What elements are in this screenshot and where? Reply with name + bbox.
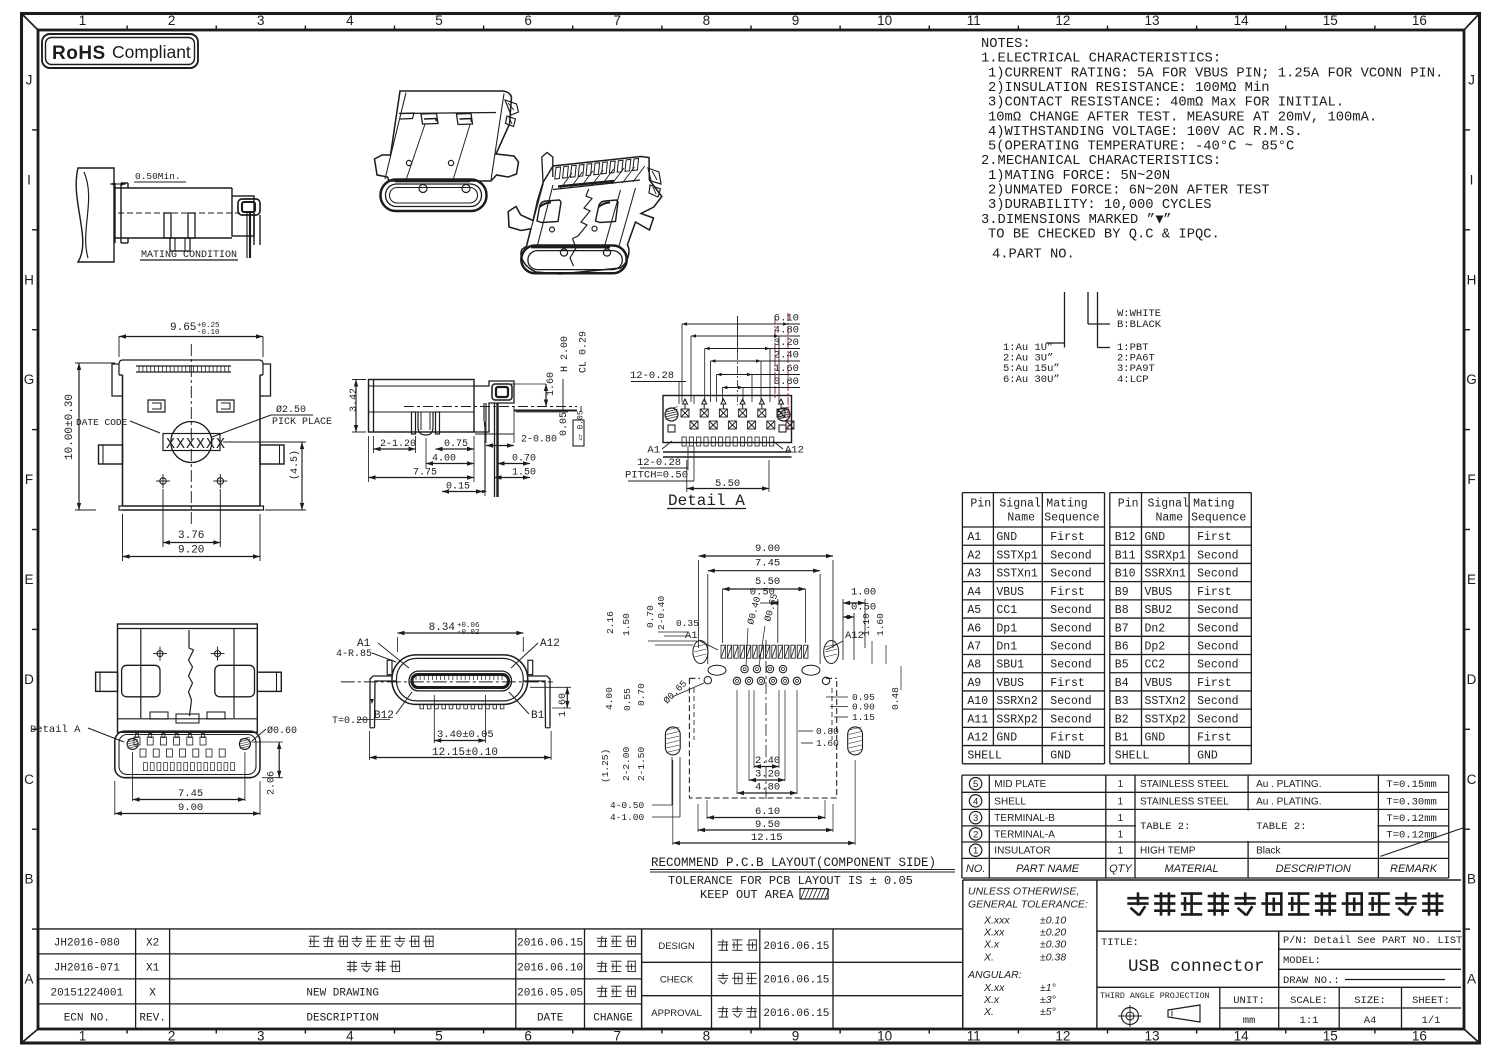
svg-text:X.xx: X.xx [983, 982, 1005, 994]
svg-text:MID PLATE: MID PLATE [994, 779, 1046, 790]
svg-text:A5: A5 [967, 604, 981, 617]
svg-text:X.xx: X.xx [983, 926, 1005, 938]
svg-text:First: First [1197, 531, 1232, 544]
svg-text:UNIT:: UNIT: [1233, 995, 1265, 1007]
svg-text:MATING CONDITION: MATING CONDITION [141, 250, 237, 261]
svg-text:SHEET:: SHEET: [1412, 995, 1450, 1007]
svg-text:10: 10 [877, 13, 892, 28]
bottom view of connector [118, 624, 258, 732]
svg-text:0.70: 0.70 [636, 683, 647, 706]
svg-text:KEEP OUT AREA: KEEP OUT AREA [700, 888, 794, 902]
svg-text:VBUS: VBUS [996, 677, 1024, 690]
svg-text:X.: X. [983, 1006, 994, 1018]
svg-text:1: 1 [1118, 796, 1124, 807]
svg-text:Au . PLATING.: Au . PLATING. [1256, 796, 1321, 807]
svg-text:11: 11 [967, 13, 981, 28]
svg-text:2: 2 [168, 1029, 176, 1044]
svg-text:20151224001: 20151224001 [50, 987, 123, 999]
svg-text:TERMINAL-B: TERMINAL-B [994, 813, 1055, 824]
svg-text:4: 4 [973, 796, 978, 807]
svg-text:B:BLACK: B:BLACK [1117, 319, 1162, 331]
svg-text:SSRXp1: SSRXp1 [1145, 549, 1187, 562]
svg-text:Second: Second [1050, 713, 1091, 726]
svg-text:A6: A6 [967, 622, 981, 635]
svg-text:TABLE 2:: TABLE 2: [1140, 821, 1190, 833]
svg-text:Second: Second [1050, 604, 1091, 617]
svg-text:9.50: 9.50 [755, 819, 780, 831]
svg-text:I: I [1470, 172, 1474, 187]
svg-text:2: 2 [973, 829, 978, 840]
svg-text:SHELL: SHELL [967, 749, 1002, 762]
svg-text:ECN NO.: ECN NO. [64, 1012, 110, 1024]
svg-text:6: 6 [524, 1029, 532, 1044]
svg-text:CHECK: CHECK [660, 975, 694, 986]
svg-text:7: 7 [614, 13, 622, 28]
svg-text:14: 14 [1234, 13, 1250, 28]
svg-text:3: 3 [257, 13, 265, 28]
svg-text:4.00: 4.00 [604, 687, 615, 710]
svg-text:7.75: 7.75 [413, 468, 437, 479]
svg-text:8.34: 8.34 [429, 622, 456, 634]
svg-text:6:Au 30U”: 6:Au 30U” [1003, 374, 1060, 386]
svg-text:10: 10 [877, 1029, 892, 1044]
svg-text:APPROVAL: APPROVAL [651, 1008, 702, 1019]
svg-text:B: B [24, 872, 33, 887]
svg-text:X.x: X.x [983, 939, 1000, 951]
svg-text:Mating: Mating [1193, 498, 1234, 511]
parts list table [962, 774, 1449, 776]
svg-text:2016.06.15: 2016.06.15 [763, 1008, 829, 1020]
svg-text:Ø2.50: Ø2.50 [276, 404, 306, 416]
svg-text:GND: GND [1197, 749, 1218, 762]
mating panel (wavy edge) [76, 168, 114, 262]
svg-text:First: First [1050, 586, 1085, 599]
hold-down slots [665, 727, 680, 755]
svg-text:CC1: CC1 [996, 604, 1017, 617]
pin assignment table [961, 493, 963, 764]
svg-text:Au . PLATING.: Au . PLATING. [1256, 779, 1321, 790]
svg-text:T=0.12mm: T=0.12mm [1386, 813, 1436, 825]
svg-text:SSRXn2: SSRXn2 [996, 695, 1038, 708]
svg-text:C: C [1467, 772, 1477, 787]
svg-text:I: I [27, 172, 31, 187]
svg-text:A1: A1 [685, 630, 698, 642]
svg-text:2-1.50: 2-1.50 [636, 746, 647, 781]
svg-text:First: First [1197, 586, 1232, 599]
svg-text:X.xxx: X.xxx [983, 914, 1010, 926]
svg-text:B12: B12 [374, 710, 394, 722]
svg-text:A7: A7 [967, 641, 981, 654]
svg-text:10mΩ CHANGE AFTER TEST. MEASUR: 10mΩ CHANGE AFTER TEST. MEASURE AT 20mV,… [988, 110, 1377, 125]
svg-text:B: B [1467, 872, 1476, 887]
svg-text:Compliant: Compliant [112, 42, 191, 62]
svg-text:4: 4 [346, 1029, 354, 1044]
svg-text:REV.: REV. [139, 1012, 165, 1024]
svg-text:14: 14 [1234, 1029, 1250, 1044]
svg-text:SSRXn1: SSRXn1 [1145, 568, 1187, 581]
svg-text:13: 13 [1145, 1029, 1160, 1044]
svg-text:4-1.00: 4-1.00 [610, 812, 645, 823]
svg-text:D: D [1467, 672, 1477, 687]
svg-text:3: 3 [973, 813, 978, 824]
shell top band with serrations [119, 360, 263, 375]
svg-text:3.DIMENSIONS MARKED ” ”: 3.DIMENSIONS MARKED ” ” [981, 212, 1171, 228]
svg-text:DRAW NO.:: DRAW NO.: [1283, 975, 1340, 987]
svg-text:TERMINAL-A: TERMINAL-A [994, 829, 1055, 840]
svg-text:A4: A4 [1364, 1015, 1377, 1027]
svg-text:Second: Second [1197, 713, 1238, 726]
svg-text:1.15: 1.15 [852, 712, 875, 723]
svg-text:5: 5 [435, 1029, 443, 1044]
svg-text:Second: Second [1197, 568, 1238, 581]
svg-text:4.80: 4.80 [774, 325, 799, 337]
side view SMT pad block [474, 381, 514, 432]
svg-text:Dn2: Dn2 [1145, 622, 1166, 635]
svg-text:H: H [24, 272, 34, 287]
svg-text:CHANGE: CHANGE [593, 1012, 633, 1024]
svg-text:2.16: 2.16 [605, 611, 616, 634]
svg-text:5(OPERATING TEMPERATURE: -40°C: 5(OPERATING TEMPERATURE: -40°C ~ 85°C [988, 139, 1294, 155]
svg-text:JH2016-080: JH2016-080 [54, 937, 120, 949]
company name (CJK strokes) [1129, 894, 1148, 915]
svg-text:Ø0.60: Ø0.60 [267, 725, 297, 737]
svg-text:TITLE:: TITLE: [1101, 937, 1139, 949]
svg-text:Name: Name [1007, 512, 1035, 525]
svg-text:Sequence: Sequence [1191, 512, 1246, 525]
svg-text:1.60: 1.60 [816, 738, 839, 749]
svg-text:Second: Second [1050, 549, 1091, 562]
svg-text:9.65: 9.65 [170, 322, 196, 334]
plug body side outline [115, 187, 232, 189]
svg-text:2.06: 2.06 [267, 771, 278, 795]
svg-text:12: 12 [1055, 13, 1070, 28]
svg-text:1:1: 1:1 [1300, 1015, 1319, 1027]
svg-text:SSTXp1: SSTXp1 [996, 549, 1038, 562]
svg-text:0.55: 0.55 [622, 688, 633, 711]
svg-text:PART NAME: PART NAME [1016, 863, 1080, 875]
svg-text:First: First [1050, 677, 1085, 690]
svg-text:2016.05.05: 2016.05.05 [517, 987, 583, 999]
svg-text:0.70: 0.70 [645, 605, 656, 628]
svg-text:X2: X2 [146, 937, 159, 949]
svg-text:HIGH TEMP: HIGH TEMP [1140, 846, 1196, 857]
svg-text:11: 11 [967, 1029, 981, 1044]
svg-text:Sequence: Sequence [1044, 512, 1099, 525]
svg-text:13: 13 [1145, 13, 1160, 28]
svg-text:VBUS: VBUS [996, 586, 1024, 599]
svg-text:Second: Second [1050, 622, 1091, 635]
svg-text:2016.06.15: 2016.06.15 [763, 941, 829, 953]
svg-text:First: First [1050, 531, 1085, 544]
pin pads A1-A12 [681, 409, 794, 429]
svg-text:16: 16 [1412, 13, 1427, 28]
svg-text:±0.30: ±0.30 [1040, 939, 1066, 951]
svg-text:A12: A12 [785, 445, 804, 457]
svg-text:GENERAL TOLERANCE:: GENERAL TOLERANCE: [968, 899, 1088, 911]
svg-text:9.00: 9.00 [178, 802, 203, 814]
svg-text:B12: B12 [1115, 531, 1136, 544]
solder legs [412, 412, 416, 434]
svg-text:0.50: 0.50 [851, 601, 876, 613]
svg-text:Dp1: Dp1 [996, 622, 1017, 635]
svg-text:Second: Second [1197, 622, 1238, 635]
svg-text:B8: B8 [1115, 604, 1129, 617]
revision history table [38, 928, 963, 930]
svg-text:SIZE:: SIZE: [1354, 995, 1386, 1007]
svg-text:DESCRIPTION: DESCRIPTION [1276, 863, 1351, 875]
svg-text:4.00: 4.00 [432, 454, 456, 465]
svg-text:B4: B4 [1115, 677, 1129, 690]
svg-text:1/1: 1/1 [1422, 1015, 1441, 1027]
svg-text:±5°: ±5° [1040, 1006, 1056, 1018]
svg-text:T=0.20: T=0.20 [332, 716, 368, 727]
svg-text:P/N: Detail See PART NO. LIST: P/N: Detail See PART NO. LIST [1283, 935, 1462, 947]
pick place circle and date code box [171, 422, 212, 463]
svg-text:15: 15 [1323, 13, 1338, 28]
svg-text:5: 5 [973, 779, 978, 790]
red centerlines [787, 313, 789, 430]
svg-text:A3: A3 [967, 568, 981, 581]
svg-text:4:LCP: 4:LCP [1117, 374, 1149, 386]
svg-text:7.45: 7.45 [178, 788, 203, 800]
svg-text:3.42: 3.42 [349, 388, 360, 412]
svg-text:J: J [1468, 72, 1475, 87]
svg-text:1)MATING FORCE: 5N~20N: 1)MATING FORCE: 5N~20N [988, 168, 1170, 184]
svg-text:TO BE CHECKED BY Q.C & IPQC.: TO BE CHECKED BY Q.C & IPQC. [988, 227, 1220, 242]
svg-text:Detail A: Detail A [668, 492, 745, 510]
svg-text:GND: GND [1145, 732, 1166, 745]
svg-text:X: X [149, 987, 156, 999]
svg-text:MODEL:: MODEL: [1283, 955, 1321, 967]
svg-text:NO.: NO. [966, 863, 986, 875]
svg-text:7: 7 [614, 1029, 622, 1044]
svg-text:MATERIAL: MATERIAL [1164, 863, 1218, 875]
svg-text:16: 16 [1412, 1029, 1427, 1044]
svg-text:4-0.50: 4-0.50 [610, 800, 645, 811]
svg-text:THIRD ANGLE PROJECTION: THIRD ANGLE PROJECTION [1100, 992, 1210, 1001]
SMT pad row [721, 645, 808, 658]
detail A body [663, 396, 792, 443]
svg-text:Mating: Mating [1046, 498, 1087, 511]
svg-text:±3°: ±3° [1040, 994, 1056, 1006]
svg-text:C: C [24, 772, 34, 787]
svg-text:±0.38: ±0.38 [1040, 952, 1066, 964]
svg-text:STAINLESS STEEL: STAINLESS STEEL [1140, 779, 1229, 790]
top view of connector [119, 360, 263, 375]
SMT pad block [231, 188, 233, 196]
svg-text:0.80: 0.80 [774, 376, 799, 388]
svg-text:NEW DRAWING: NEW DRAWING [306, 987, 379, 999]
svg-text:A1: A1 [647, 445, 660, 457]
svg-text:CL 0.29: CL 0.29 [579, 331, 590, 373]
RoHS compliant badge [42, 34, 198, 68]
svg-text:6.10: 6.10 [774, 313, 799, 325]
svg-text:0.35: 0.35 [676, 618, 699, 629]
connector outline (dashed) [689, 678, 836, 798]
svg-text:DATE CODE: DATE CODE [76, 417, 128, 428]
svg-text:H 2.00: H 2.00 [560, 336, 571, 372]
svg-text:ANGULAR:: ANGULAR: [967, 969, 1022, 981]
svg-text:H: H [1467, 272, 1477, 287]
svg-text:0.80: 0.80 [816, 726, 839, 737]
svg-text:±0.20: ±0.20 [1040, 926, 1066, 938]
svg-text:±0.10: ±0.10 [1040, 914, 1066, 926]
tongue with contacts [409, 671, 512, 691]
svg-text:Second: Second [1050, 659, 1091, 672]
svg-text:9: 9 [792, 13, 800, 28]
svg-text:0.15: 0.15 [446, 482, 470, 493]
svg-text:B3: B3 [1115, 695, 1129, 708]
svg-text:Detail A: Detail A [30, 724, 81, 736]
svg-text:SBU1: SBU1 [996, 659, 1024, 672]
hatched mounting holes [665, 408, 678, 421]
svg-text:First: First [1197, 732, 1232, 745]
side view body [369, 380, 475, 433]
svg-text:T=0.30mm: T=0.30mm [1386, 796, 1436, 808]
svg-text:SHELL: SHELL [1115, 749, 1150, 762]
svg-text:4: 4 [346, 13, 354, 28]
svg-text:B10: B10 [1115, 568, 1136, 581]
svg-text:B9: B9 [1115, 586, 1129, 599]
svg-text:2.40: 2.40 [774, 350, 799, 362]
svg-text:3.20: 3.20 [755, 769, 780, 781]
svg-text:Second: Second [1197, 659, 1238, 672]
svg-text:G: G [24, 372, 35, 387]
svg-text:X.: X. [983, 952, 994, 964]
svg-text:VBUS: VBUS [1145, 586, 1173, 599]
svg-text:PITCH=0.50: PITCH=0.50 [625, 470, 688, 482]
svg-text:1.10: 1.10 [861, 613, 872, 636]
svg-text:CC2: CC2 [1145, 659, 1166, 672]
svg-text:-0.10: -0.10 [197, 329, 220, 337]
svg-text:1)CURRENT RATING: 5A FOR VBUS: 1)CURRENT RATING: 5A FOR VBUS PIN; 1.25A… [988, 65, 1443, 81]
svg-text:F: F [25, 472, 33, 487]
svg-text:1.60: 1.60 [546, 372, 557, 396]
svg-text:SSTXn1: SSTXn1 [996, 568, 1038, 581]
svg-text:7.45: 7.45 [755, 558, 780, 570]
svg-text:0.90: 0.90 [852, 702, 875, 713]
svg-text:F: F [1467, 472, 1475, 487]
svg-text:1.00: 1.00 [851, 587, 876, 599]
svg-text:Dn1: Dn1 [996, 641, 1017, 654]
svg-text:VBUS: VBUS [1145, 677, 1173, 690]
svg-text:6.10: 6.10 [755, 806, 780, 818]
svg-text:First: First [1197, 677, 1232, 690]
svg-text:A2: A2 [967, 549, 981, 562]
svg-text:Pin: Pin [1118, 498, 1139, 511]
svg-text:Signal: Signal [1148, 498, 1190, 511]
svg-text:TABLE 2:: TABLE 2: [1256, 821, 1306, 833]
svg-text:2)INSULATION RESISTANCE: 100MΩ: 2)INSULATION RESISTANCE: 100MΩ Min [988, 80, 1270, 96]
svg-text:Dp2: Dp2 [1145, 641, 1166, 654]
svg-text:USB connector: USB connector [1128, 957, 1265, 977]
svg-text:5: 5 [435, 13, 443, 28]
svg-text:1.ELECTRICAL CHARACTERISTICS:: 1.ELECTRICAL CHARACTERISTICS: [981, 52, 1221, 67]
svg-text:A10: A10 [967, 695, 988, 708]
svg-text:Black: Black [1256, 846, 1281, 857]
svg-text:1: 1 [79, 1029, 87, 1044]
svg-text:B2: B2 [1115, 713, 1129, 726]
svg-text:RoHS: RoHS [52, 43, 106, 64]
svg-text:NOTES:: NOTES: [981, 37, 1031, 52]
svg-text:1: 1 [1118, 829, 1124, 840]
svg-text:QTY: QTY [1109, 863, 1132, 875]
svg-text:15: 15 [1323, 1029, 1338, 1044]
svg-text:A9: A9 [967, 677, 981, 690]
svg-text:±1°: ±1° [1040, 982, 1056, 994]
svg-text:A: A [24, 972, 33, 987]
svg-text:A1: A1 [967, 531, 981, 544]
svg-text:First: First [1050, 732, 1085, 745]
svg-text:0.75: 0.75 [444, 439, 468, 450]
svg-text:Second: Second [1197, 695, 1238, 708]
side wings [112, 364, 119, 396]
svg-text:Second: Second [1197, 549, 1238, 562]
through-hole legs [370, 676, 392, 728]
title block [962, 880, 964, 1029]
svg-text:B5: B5 [1115, 659, 1129, 672]
svg-text:0.48: 0.48 [890, 687, 901, 710]
svg-text:X.x: X.x [983, 994, 1000, 1006]
svg-text:1: 1 [1118, 779, 1124, 790]
svg-text:X1: X1 [146, 962, 160, 974]
svg-text:Second: Second [1050, 641, 1091, 654]
svg-text:12.15: 12.15 [751, 832, 783, 844]
svg-text:8: 8 [703, 1029, 711, 1044]
front shell stadium [392, 655, 528, 705]
svg-text:SSTXp2: SSTXp2 [1145, 713, 1187, 726]
svg-text:2016.06.15: 2016.06.15 [517, 937, 583, 949]
svg-text:9.00: 9.00 [755, 543, 780, 555]
svg-text:SSTXn2: SSTXn2 [1145, 695, 1187, 708]
svg-text:D: D [24, 672, 34, 687]
svg-text:10.00±0.30: 10.00±0.30 [64, 394, 76, 460]
svg-text:GND: GND [1145, 531, 1166, 544]
svg-text:1: 1 [79, 13, 87, 28]
svg-text:DESIGN: DESIGN [658, 941, 695, 952]
svg-text:T=0.15mm: T=0.15mm [1386, 779, 1436, 791]
svg-text:B1: B1 [1115, 732, 1129, 745]
svg-text:2-0.40: 2-0.40 [656, 595, 667, 630]
svg-text:3)CONTACT RESISTANCE: 40mΩ Max: 3)CONTACT RESISTANCE: 40mΩ Max FOR INITI… [988, 95, 1344, 111]
svg-text:0.50Min.: 0.50Min. [135, 171, 181, 182]
svg-text:Second: Second [1050, 695, 1091, 708]
svg-text:2-0.80: 2-0.80 [521, 435, 557, 446]
svg-text:SHELL: SHELL [994, 796, 1026, 807]
svg-text:A4: A4 [967, 586, 981, 599]
svg-text:Signal: Signal [999, 498, 1041, 511]
isometric view: receptacle [508, 157, 662, 275]
svg-text:2-2.00: 2-2.00 [621, 746, 632, 781]
svg-text:STAINLESS STEEL: STAINLESS STEEL [1140, 796, 1229, 807]
svg-text:12-0.28: 12-0.28 [637, 457, 681, 469]
svg-text:1: 1 [973, 846, 978, 857]
svg-text:4.PART NO.: 4.PART NO. [992, 248, 1075, 263]
isometric view: plug shell [375, 91, 519, 181]
svg-text:9: 9 [792, 1029, 800, 1044]
svg-text:Second: Second [1197, 604, 1238, 617]
svg-text:REMARK: REMARK [1390, 863, 1438, 875]
svg-text:RECOMMEND P.C.B LAYOUT(COMPONE: RECOMMEND P.C.B LAYOUT(COMPONENT SIDE) [651, 856, 936, 870]
svg-text:9.20: 9.20 [178, 545, 204, 557]
svg-text:Name: Name [1156, 512, 1184, 525]
svg-text:(4.5): (4.5) [289, 450, 301, 480]
svg-text:SBU2: SBU2 [1145, 604, 1173, 617]
svg-text:1.60: 1.60 [875, 613, 886, 636]
svg-text:8: 8 [703, 13, 711, 28]
part number legend [1064, 292, 1066, 348]
svg-text:B11: B11 [1115, 549, 1136, 562]
